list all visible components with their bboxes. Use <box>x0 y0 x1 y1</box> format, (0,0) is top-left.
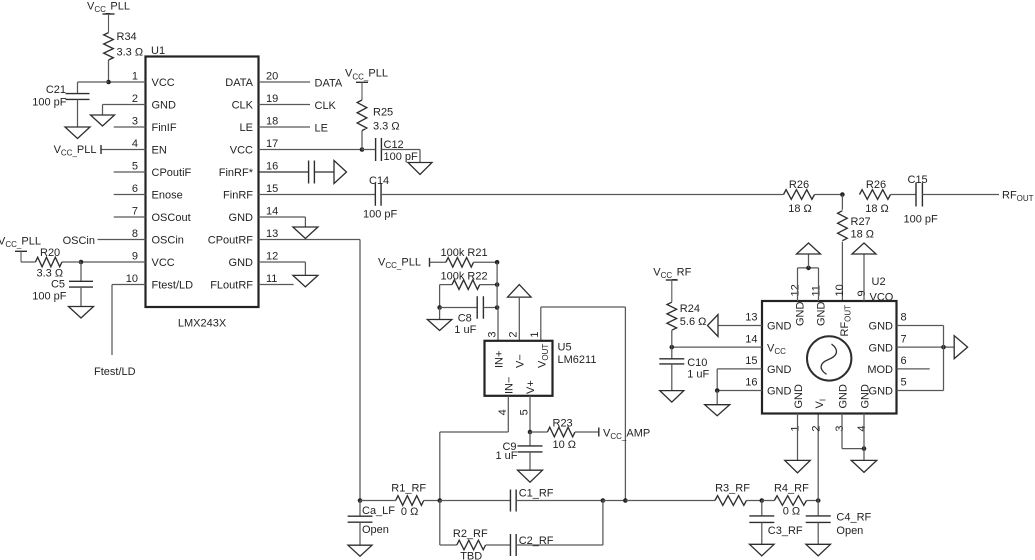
svg-text:C10: C10 <box>687 357 707 369</box>
svg-text:EN: EN <box>152 144 167 156</box>
svg-text:OSCout: OSCout <box>152 212 191 224</box>
svg-text:9: 9 <box>856 290 868 296</box>
svg-text:C8: C8 <box>458 313 472 325</box>
svg-text:GND: GND <box>229 257 254 269</box>
svg-text:16: 16 <box>266 161 278 173</box>
svg-text:1: 1 <box>790 425 802 431</box>
svg-text:Enose: Enose <box>152 189 183 201</box>
svg-text:6: 6 <box>901 355 907 367</box>
svg-text:14: 14 <box>266 206 278 218</box>
svg-text:R20: R20 <box>40 247 60 259</box>
svg-text:4: 4 <box>856 425 868 431</box>
svg-text:3.3 Ω: 3.3 Ω <box>117 47 144 59</box>
svg-text:100 pF: 100 pF <box>904 214 939 226</box>
svg-text:C12: C12 <box>384 139 404 151</box>
svg-text:Ftest/LD: Ftest/LD <box>94 366 136 378</box>
svg-text:U1: U1 <box>151 45 165 57</box>
svg-text:GND: GND <box>767 386 792 398</box>
svg-text:100 pF: 100 pF <box>363 209 398 221</box>
svg-text:7: 7 <box>901 333 907 345</box>
svg-text:FinRF: FinRF <box>223 189 253 201</box>
svg-text:CLK: CLK <box>232 99 254 111</box>
svg-text:GND: GND <box>838 384 850 409</box>
svg-text:R23: R23 <box>553 418 573 430</box>
svg-text:R25: R25 <box>373 107 393 119</box>
svg-text:CPoutiF: CPoutiF <box>152 167 192 179</box>
svg-text:R24: R24 <box>680 303 700 315</box>
svg-text:11: 11 <box>811 285 823 296</box>
svg-text:2: 2 <box>507 331 519 337</box>
svg-text:R26: R26 <box>789 179 809 191</box>
svg-text:GND: GND <box>152 99 177 111</box>
svg-text:5: 5 <box>519 409 531 415</box>
svg-text:4: 4 <box>132 138 138 150</box>
svg-text:FLoutRF: FLoutRF <box>210 279 253 291</box>
svg-text:IN−: IN− <box>504 377 516 394</box>
svg-text:R1_RF: R1_RF <box>391 482 426 494</box>
svg-text:3: 3 <box>132 116 138 128</box>
svg-text:CPoutRF: CPoutRF <box>208 234 254 246</box>
svg-text:100 pF: 100 pF <box>32 97 67 109</box>
svg-text:15: 15 <box>745 355 757 367</box>
svg-text:U2: U2 <box>872 276 886 288</box>
svg-text:CLK: CLK <box>315 100 337 112</box>
svg-text:100 pF: 100 pF <box>32 291 67 303</box>
svg-text:U5: U5 <box>558 342 572 354</box>
svg-text:18 Ω: 18 Ω <box>851 229 875 241</box>
svg-text:1 uF: 1 uF <box>495 450 517 462</box>
svg-text:C15: C15 <box>908 174 928 186</box>
svg-text:GND: GND <box>767 364 792 376</box>
svg-text:100 pF: 100 pF <box>384 151 419 163</box>
svg-text:TBD: TBD <box>460 551 482 560</box>
svg-text:DATA: DATA <box>315 77 343 89</box>
svg-text:16: 16 <box>745 377 757 389</box>
svg-text:GND: GND <box>767 321 792 333</box>
svg-text:LE: LE <box>315 122 328 134</box>
svg-text:3: 3 <box>834 425 846 431</box>
svg-text:8: 8 <box>132 228 138 240</box>
svg-text:GND: GND <box>869 342 894 354</box>
svg-text:14: 14 <box>745 333 757 345</box>
svg-text:OSCin: OSCin <box>152 234 184 246</box>
svg-text:C1_RF: C1_RF <box>519 488 554 500</box>
svg-text:OSCin: OSCin <box>63 235 95 247</box>
svg-text:6: 6 <box>132 183 138 195</box>
svg-text:10 Ω: 10 Ω <box>553 439 577 451</box>
svg-text:18 Ω: 18 Ω <box>788 203 812 215</box>
svg-text:1: 1 <box>132 71 138 83</box>
svg-text:FinIF: FinIF <box>152 122 177 134</box>
svg-text:MOD: MOD <box>867 364 893 376</box>
svg-text:R26: R26 <box>866 179 886 191</box>
svg-text:C5: C5 <box>51 279 65 291</box>
svg-text:1 uF: 1 uF <box>687 368 709 380</box>
svg-text:1 uF: 1 uF <box>454 324 476 336</box>
svg-text:VCC_AMP: VCC_AMP <box>603 428 650 442</box>
svg-text:FinRF*: FinRF* <box>219 167 254 179</box>
svg-text:7: 7 <box>132 206 138 218</box>
svg-text:IN+: IN+ <box>494 351 506 368</box>
svg-text:LM6211: LM6211 <box>558 354 597 366</box>
svg-text:3: 3 <box>486 331 498 337</box>
svg-text:15: 15 <box>266 183 278 195</box>
svg-text:R4_RF: R4_RF <box>774 482 809 494</box>
svg-text:0 Ω: 0 Ω <box>783 506 800 518</box>
svg-text:GND: GND <box>229 212 254 224</box>
svg-text:2: 2 <box>132 93 138 105</box>
svg-text:17: 17 <box>266 138 278 150</box>
svg-text:19: 19 <box>266 93 278 105</box>
svg-text:VCC: VCC <box>152 77 175 89</box>
svg-text:R2_RF: R2_RF <box>453 528 488 540</box>
svg-text:GND: GND <box>869 321 894 333</box>
svg-text:1: 1 <box>529 331 541 337</box>
svg-text:11: 11 <box>266 273 277 285</box>
svg-text:Ftest/LD: Ftest/LD <box>152 279 194 291</box>
svg-text:R34: R34 <box>117 31 137 43</box>
svg-text:LMX243X: LMX243X <box>178 318 227 330</box>
svg-text:GND: GND <box>793 384 805 409</box>
svg-text:8: 8 <box>901 312 907 324</box>
svg-text:VCC: VCC <box>230 144 253 156</box>
svg-text:2: 2 <box>811 425 823 431</box>
svg-text:V+: V+ <box>525 380 537 394</box>
svg-text:GND: GND <box>860 384 872 409</box>
svg-text:18 Ω: 18 Ω <box>865 203 889 215</box>
svg-text:100k R22: 100k R22 <box>441 271 488 283</box>
svg-text:DATA: DATA <box>225 77 253 89</box>
svg-text:10: 10 <box>834 284 846 296</box>
svg-text:GND: GND <box>869 386 894 398</box>
svg-text:4: 4 <box>497 409 509 415</box>
svg-text:VCO: VCO <box>870 291 894 303</box>
svg-text:12: 12 <box>266 251 278 263</box>
svg-text:Open: Open <box>362 524 389 536</box>
svg-text:Open: Open <box>836 525 863 537</box>
svg-text:C4_RF: C4_RF <box>836 511 871 523</box>
svg-text:GND: GND <box>816 302 828 327</box>
svg-text:GND: GND <box>795 302 807 327</box>
svg-text:5.6 Ω: 5.6 Ω <box>680 316 707 328</box>
svg-text:5: 5 <box>132 161 138 173</box>
svg-text:13: 13 <box>266 228 278 240</box>
svg-text:100k R21: 100k R21 <box>441 247 488 259</box>
svg-text:5: 5 <box>901 377 907 389</box>
svg-text:0 Ω: 0 Ω <box>401 506 418 518</box>
svg-text:C3_RF: C3_RF <box>768 525 803 537</box>
svg-text:C2_RF: C2_RF <box>519 535 554 547</box>
svg-text:13: 13 <box>745 312 757 324</box>
svg-text:12: 12 <box>790 284 802 296</box>
svg-text:Ca_LF: Ca_LF <box>362 505 395 517</box>
svg-text:R27: R27 <box>851 216 871 228</box>
svg-text:18: 18 <box>266 116 278 128</box>
svg-text:20: 20 <box>266 71 278 83</box>
svg-text:R3_RF: R3_RF <box>715 482 750 494</box>
svg-text:3.3 Ω: 3.3 Ω <box>373 121 400 133</box>
svg-text:VCC: VCC <box>152 257 175 269</box>
svg-text:9: 9 <box>132 251 138 263</box>
svg-text:V−: V− <box>515 354 527 368</box>
svg-text:10: 10 <box>126 273 138 285</box>
svg-text:C21: C21 <box>46 84 66 96</box>
svg-text:C14: C14 <box>369 175 389 187</box>
svg-text:LE: LE <box>240 122 253 134</box>
